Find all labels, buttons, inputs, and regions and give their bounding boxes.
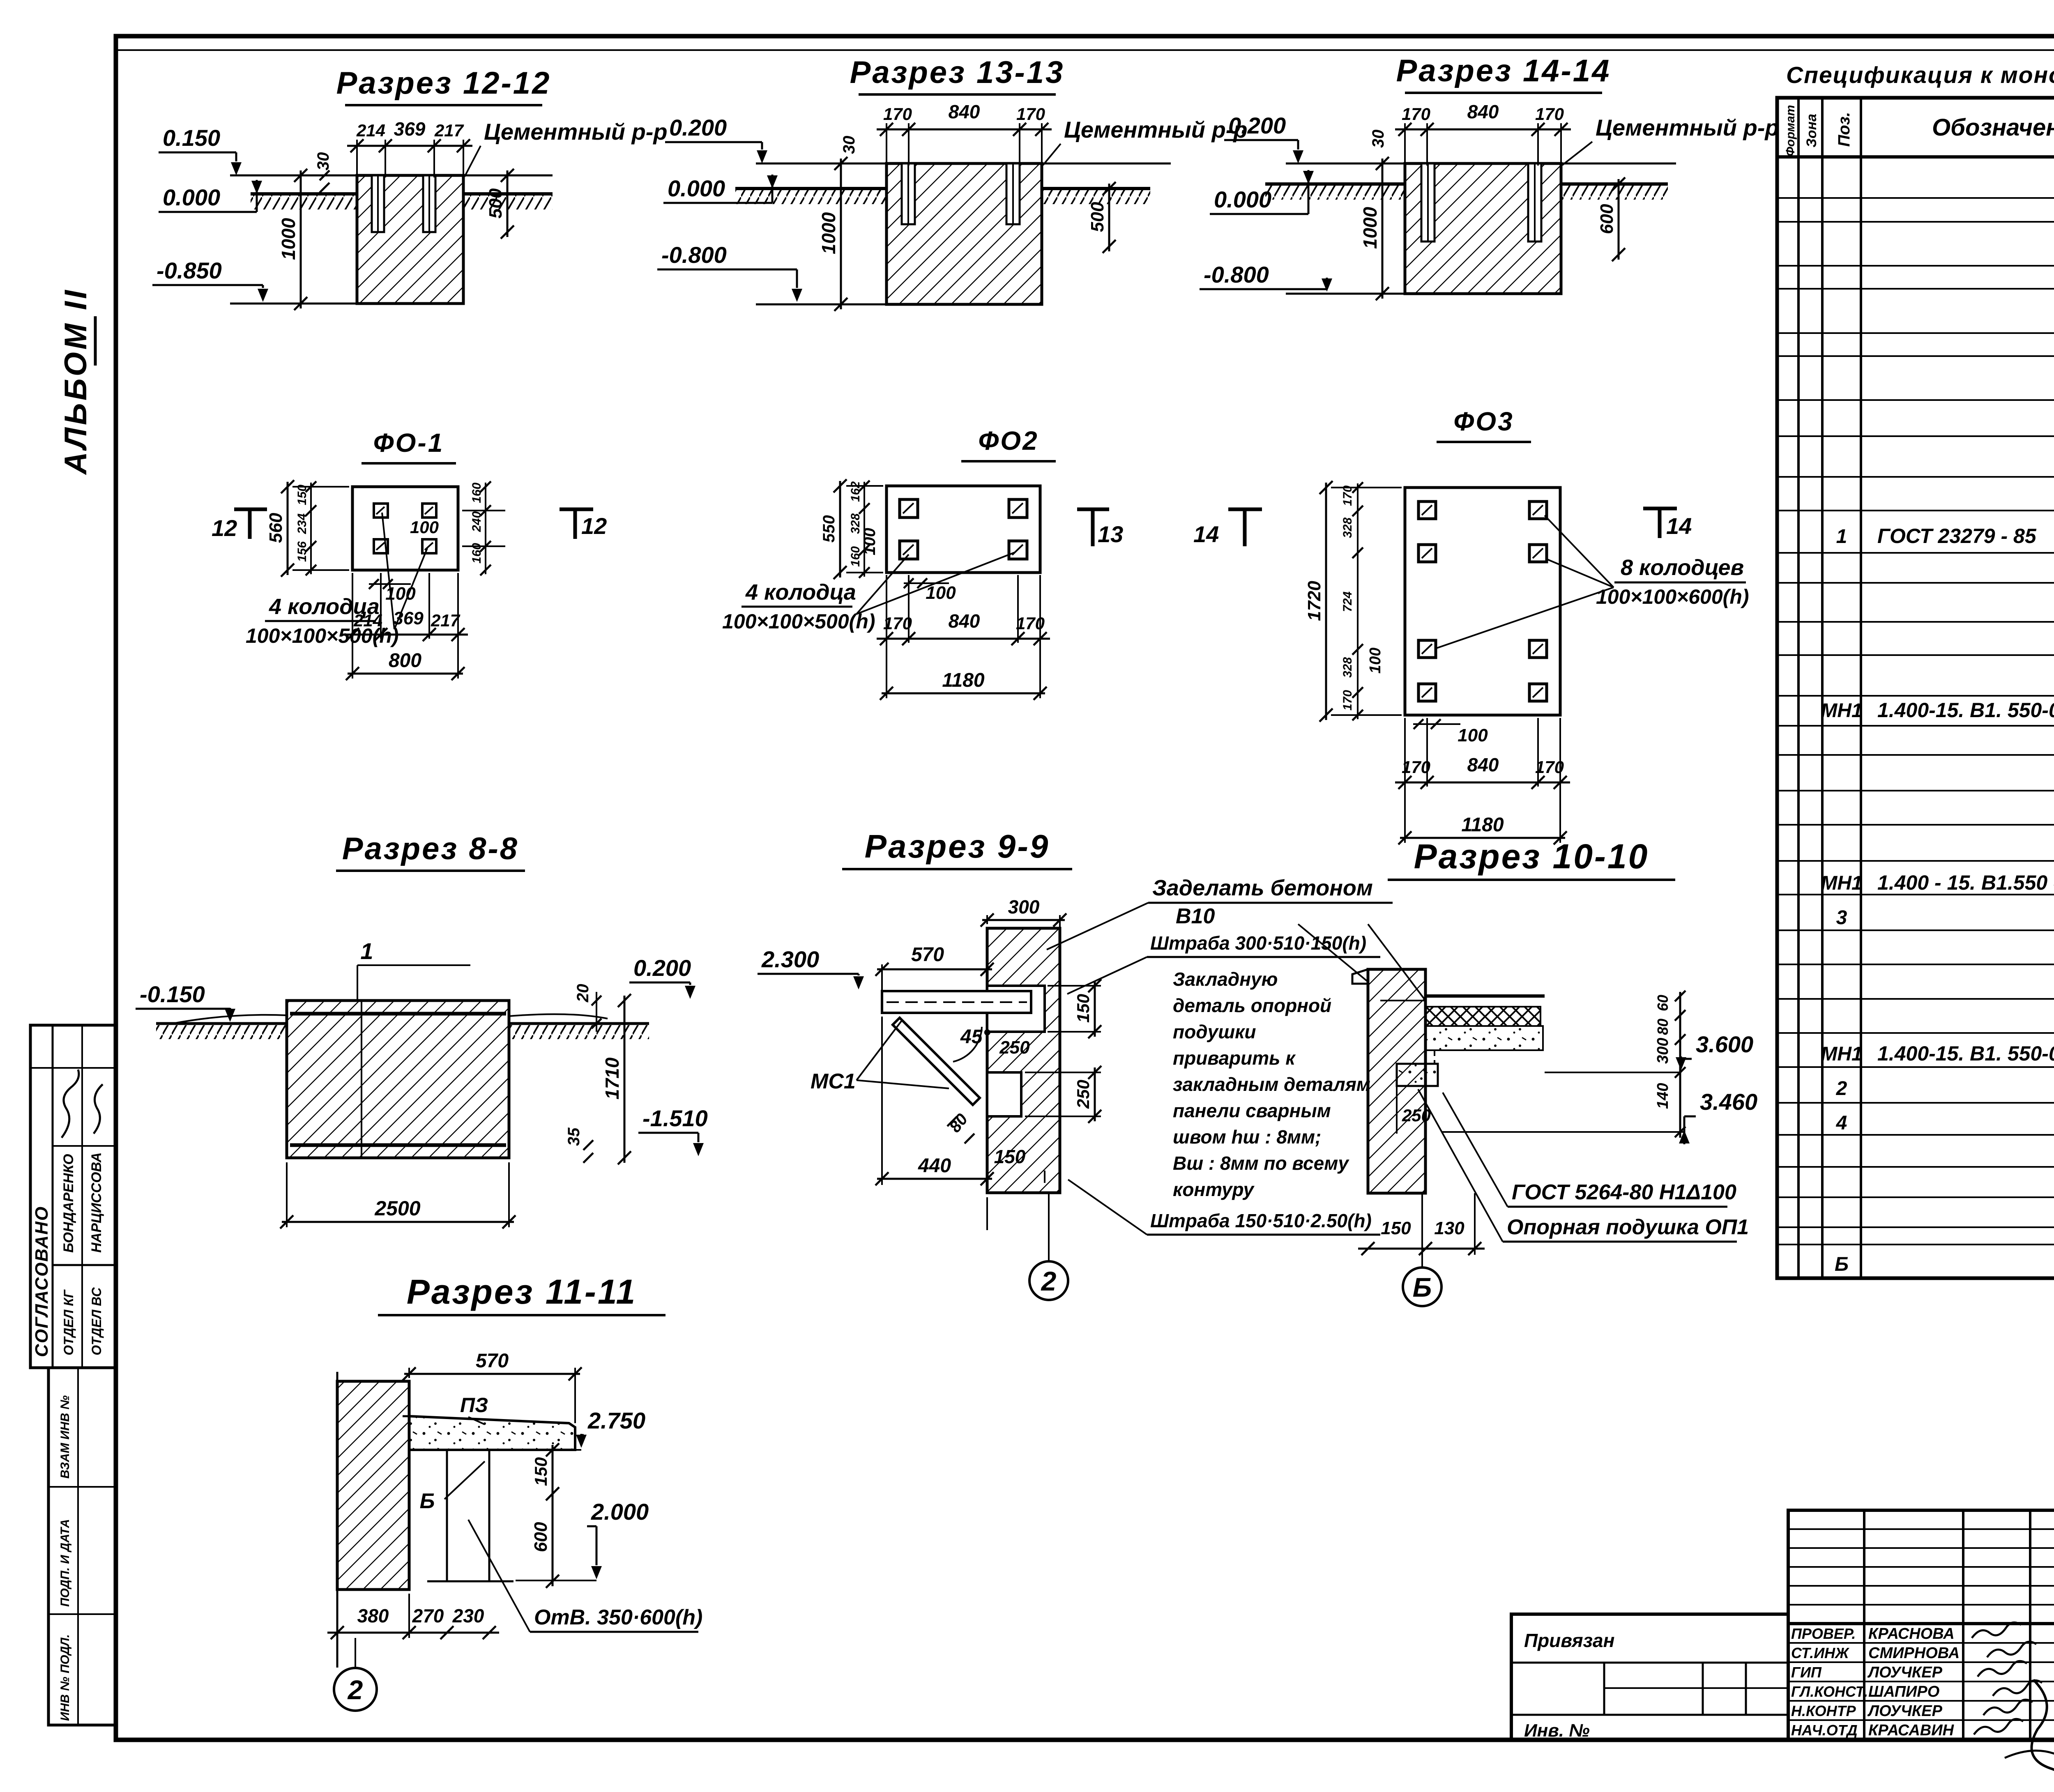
svg-text:ВЗАМ ИНВ №: ВЗАМ ИНВ №	[58, 1395, 72, 1479]
svg-text:150: 150	[994, 1146, 1026, 1167]
svg-text:Штраба 300·510·150(h): Штраба 300·510·150(h)	[1150, 932, 1366, 954]
svg-text:СОГЛАСОВАНО: СОГЛАСОВАНО	[32, 1206, 52, 1357]
svg-text:3.460: 3.460	[1700, 1089, 1757, 1115]
svg-text:1.400-15. В1. 550-04: 1.400-15. В1. 550-04	[1877, 699, 2054, 722]
svg-text:13: 13	[1098, 521, 1123, 547]
svg-text:20: 20	[574, 984, 592, 1003]
svg-text:КРАСНОВА: КРАСНОВА	[1868, 1625, 1955, 1642]
svg-text:45°: 45°	[960, 1026, 990, 1048]
svg-text:3.600: 3.600	[1696, 1031, 1753, 1057]
svg-text:570: 570	[911, 944, 944, 966]
svg-text:ШАПИРО: ШАПИРО	[1868, 1683, 1939, 1700]
svg-text:240: 240	[470, 511, 484, 532]
svg-text:156: 156	[295, 541, 309, 562]
svg-text:МН1: МН1	[1821, 1043, 1862, 1065]
svg-text:Б: Б	[420, 1489, 435, 1513]
svg-text:1.400 - 15. В1.550 - 04: 1.400 - 15. В1.550 - 04	[1877, 871, 2054, 894]
svg-text:380: 380	[357, 1605, 389, 1626]
svg-text:ОТДЕЛ ВС: ОТДЕЛ ВС	[89, 1287, 104, 1355]
svg-text:АЛЬБОМ II: АЛЬБОМ II	[58, 288, 93, 475]
svg-text:МН1: МН1	[1821, 700, 1862, 722]
svg-text:В10: В10	[1176, 904, 1215, 928]
svg-text:НАЧ.ОТД: НАЧ.ОТД	[1791, 1722, 1858, 1739]
svg-text:35: 35	[565, 1127, 583, 1146]
svg-text:0.200: 0.200	[669, 115, 727, 140]
svg-text:162: 162	[849, 481, 862, 502]
svg-text:2: 2	[347, 1675, 363, 1705]
svg-text:328: 328	[1341, 518, 1354, 538]
svg-text:Привязан: Привязан	[1524, 1630, 1614, 1651]
svg-text:приварить к: приварить к	[1173, 1047, 1296, 1069]
svg-text:4 колодца: 4 колодца	[745, 580, 856, 605]
svg-text:14: 14	[1666, 513, 1692, 539]
svg-text:Опорная подушка ОП1: Опорная подушка ОП1	[1507, 1215, 1749, 1239]
svg-text:217: 217	[431, 611, 461, 630]
svg-text:3: 3	[1836, 907, 1847, 929]
svg-text:БОНДАРЕНКО: БОНДАРЕНКО	[61, 1154, 76, 1253]
svg-text:1000: 1000	[278, 218, 299, 260]
svg-text:Цементный р-р: Цементный р-р	[1596, 115, 1779, 140]
svg-text:100: 100	[1458, 725, 1488, 745]
svg-text:328: 328	[1341, 657, 1354, 678]
svg-text:140: 140	[1654, 1083, 1672, 1109]
svg-text:ИНВ № ПОДЛ.: ИНВ № ПОДЛ.	[58, 1634, 72, 1721]
svg-text:ФО2: ФО2	[978, 426, 1039, 455]
svg-text:250: 250	[999, 1037, 1030, 1058]
svg-text:2500: 2500	[374, 1197, 420, 1220]
svg-text:150: 150	[295, 485, 309, 505]
svg-text:ГОСТ 5264-80 Н1Δ100: ГОСТ 5264-80 Н1Δ100	[1512, 1180, 1736, 1204]
svg-text:170: 170	[1016, 614, 1045, 633]
svg-text:570: 570	[476, 1350, 509, 1372]
svg-text:1000: 1000	[818, 212, 839, 254]
svg-text:369: 369	[393, 608, 424, 628]
svg-text:Штраба 150·510·2.50(h): Штраба 150·510·2.50(h)	[1150, 1210, 1372, 1231]
svg-text:440: 440	[918, 1155, 951, 1177]
svg-text:панели сварным: панели сварным	[1173, 1100, 1331, 1121]
svg-text:КРАСАВИН: КРАСАВИН	[1868, 1722, 1955, 1739]
svg-text:2.300: 2.300	[761, 946, 819, 972]
svg-text:Закладную: Закладную	[1173, 968, 1278, 990]
svg-text:130: 130	[1434, 1218, 1465, 1238]
svg-text:ПЗ: ПЗ	[460, 1394, 488, 1417]
svg-text:Б: Б	[1835, 1254, 1849, 1275]
svg-text:ОтВ. 350·600(h): ОтВ. 350·600(h)	[534, 1606, 702, 1629]
svg-text:ПРОВЕР.: ПРОВЕР.	[1791, 1625, 1856, 1642]
svg-text:100: 100	[861, 528, 879, 555]
svg-text:840: 840	[949, 610, 980, 632]
svg-text:-0.850: -0.850	[157, 258, 222, 283]
svg-text:Разрез 10-10: Разрез 10-10	[1414, 837, 1649, 876]
svg-text:30: 30	[314, 152, 332, 171]
svg-text:Н.КОНТР: Н.КОНТР	[1791, 1702, 1856, 1719]
svg-text:контуру: контуру	[1173, 1179, 1255, 1200]
svg-text:100: 100	[926, 583, 956, 603]
svg-text:2.000: 2.000	[591, 1499, 649, 1525]
svg-text:12: 12	[212, 515, 237, 541]
svg-text:150: 150	[531, 1457, 550, 1486]
svg-text:170: 170	[883, 104, 912, 124]
svg-text:1: 1	[360, 938, 373, 964]
svg-text:2.750: 2.750	[587, 1408, 645, 1433]
svg-text:100: 100	[410, 518, 439, 537]
svg-text:Разрез 14-14: Разрез 14-14	[1396, 53, 1611, 88]
svg-text:ФО3: ФО3	[1453, 407, 1514, 436]
svg-text:170: 170	[1341, 690, 1354, 711]
svg-text:-1.510: -1.510	[642, 1105, 708, 1131]
svg-text:840: 840	[949, 101, 980, 122]
svg-text:-0.150: -0.150	[140, 981, 205, 1007]
svg-text:Б: Б	[1413, 1272, 1432, 1302]
svg-text:подушки: подушки	[1173, 1021, 1256, 1042]
svg-text:160: 160	[470, 543, 484, 564]
svg-text:8 колодцев: 8 колодцев	[1621, 555, 1744, 580]
svg-text:0.000: 0.000	[1214, 186, 1271, 212]
svg-text:Формат: Формат	[1784, 105, 1797, 156]
svg-text:Инв. №: Инв. №	[1524, 1721, 1590, 1741]
svg-text:Обозначение: Обозначение	[1932, 114, 2054, 141]
svg-text:250: 250	[1402, 1106, 1431, 1125]
svg-text:Цементный р-р: Цементный р-р	[1064, 117, 1248, 143]
svg-text:0.200: 0.200	[1228, 113, 1286, 138]
svg-text:30: 30	[840, 136, 858, 154]
svg-text:234: 234	[295, 513, 309, 534]
svg-text:МН1: МН1	[1821, 872, 1862, 894]
svg-text:100×100×500(h): 100×100×500(h)	[722, 610, 875, 633]
svg-text:160: 160	[470, 483, 484, 503]
svg-text:270: 270	[412, 1605, 444, 1626]
svg-text:30: 30	[1369, 130, 1387, 148]
svg-text:214: 214	[356, 121, 385, 140]
svg-text:100×100×600(h): 100×100×600(h)	[1596, 585, 1749, 608]
svg-text:ПОДП. И ДАТА: ПОДП. И ДАТА	[58, 1519, 72, 1607]
svg-text:14: 14	[1193, 521, 1219, 547]
svg-text:170: 170	[1402, 757, 1430, 777]
svg-text:ОТДЕЛ КГ: ОТДЕЛ КГ	[61, 1289, 76, 1355]
svg-text:170: 170	[1016, 104, 1045, 124]
svg-text:Зона: Зона	[1804, 114, 1819, 147]
svg-text:ЛОУЧКЕР: ЛОУЧКЕР	[1867, 1702, 1943, 1720]
svg-text:СТ.ИНЖ: СТ.ИНЖ	[1791, 1645, 1849, 1661]
svg-text:2: 2	[1041, 1266, 1057, 1296]
svg-text:100: 100	[385, 584, 416, 604]
svg-text:ЛОУЧКЕР: ЛОУЧКЕР	[1867, 1664, 1943, 1681]
svg-text:170: 170	[1535, 104, 1564, 124]
svg-text:1180: 1180	[1461, 814, 1504, 836]
svg-text:1000: 1000	[1359, 207, 1381, 249]
svg-text:170: 170	[1535, 757, 1564, 777]
svg-text:150: 150	[1073, 994, 1093, 1023]
svg-text:деталь опорной: деталь опорной	[1173, 995, 1331, 1016]
svg-text:214: 214	[353, 611, 382, 630]
svg-text:840: 840	[1467, 101, 1499, 122]
svg-text:0.000: 0.000	[163, 184, 220, 210]
svg-text:170: 170	[883, 614, 912, 633]
svg-text:500: 500	[1087, 202, 1108, 232]
svg-text:170: 170	[1341, 485, 1354, 506]
svg-text:300: 300	[1654, 1038, 1672, 1064]
svg-text:217: 217	[434, 121, 464, 140]
svg-text:4: 4	[1836, 1112, 1847, 1134]
svg-text:800: 800	[389, 650, 421, 672]
svg-text:Разрез 12-12: Разрез 12-12	[336, 66, 551, 101]
svg-text:840: 840	[1467, 754, 1499, 775]
svg-text:600: 600	[1597, 204, 1617, 234]
svg-text:Разрез 11-11: Разрез 11-11	[407, 1272, 637, 1311]
svg-text:250: 250	[1073, 1080, 1093, 1109]
svg-text:1720: 1720	[1304, 581, 1324, 621]
svg-text:0.200: 0.200	[633, 955, 691, 981]
svg-text:швом hш : 8мм;: швом hш : 8мм;	[1173, 1126, 1321, 1148]
svg-text:230: 230	[452, 1605, 484, 1626]
svg-text:Спецификация к монолитным фунд: Спецификация к монолитным фундаментам и …	[1786, 62, 2054, 88]
svg-text:Разрез 9-9: Разрез 9-9	[865, 828, 1050, 865]
svg-text:560: 560	[266, 513, 286, 543]
svg-text:ГИП: ГИП	[1791, 1664, 1822, 1681]
svg-text:СМИРНОВА: СМИРНОВА	[1868, 1645, 1960, 1662]
svg-text:Вш : 8мм по всему: Вш : 8мм по всему	[1173, 1152, 1349, 1174]
svg-text:Разрез 8-8: Разрез 8-8	[342, 831, 519, 866]
svg-text:закладным деталям: закладным деталям	[1173, 1074, 1370, 1095]
svg-text:1180: 1180	[942, 669, 985, 691]
svg-text:12: 12	[581, 513, 607, 539]
svg-text:1: 1	[1836, 526, 1847, 547]
svg-text:ГЛ.КОНСТ.: ГЛ.КОНСТ.	[1791, 1683, 1868, 1700]
svg-text:600: 600	[531, 1522, 551, 1552]
svg-text:170: 170	[1402, 104, 1430, 124]
svg-text:550: 550	[820, 515, 838, 543]
svg-text:100: 100	[1367, 648, 1384, 674]
svg-text:1.400-15. В1. 550-04: 1.400-15. В1. 550-04	[1877, 1042, 2054, 1065]
svg-text:60: 60	[1654, 995, 1671, 1011]
svg-text:Цементный р-р: Цементный р-р	[484, 119, 668, 145]
svg-text:-0.800: -0.800	[661, 242, 727, 268]
svg-text:Разрез 13-13: Разрез 13-13	[850, 55, 1065, 90]
svg-text:500: 500	[486, 188, 506, 219]
svg-text:Поз.: Поз.	[1835, 112, 1853, 147]
svg-text:2: 2	[1836, 1078, 1847, 1100]
svg-text:-0.800: -0.800	[1204, 262, 1269, 288]
svg-text:724: 724	[1341, 591, 1354, 612]
svg-text:Заделать бетоном: Заделать бетоном	[1152, 876, 1373, 900]
svg-text:ГОСТ 23279 - 85: ГОСТ 23279 - 85	[1877, 524, 2037, 547]
svg-text:1710: 1710	[601, 1057, 623, 1100]
svg-text:МС1: МС1	[811, 1070, 856, 1093]
svg-text:80: 80	[1654, 1019, 1671, 1035]
svg-text:0.150: 0.150	[163, 125, 220, 151]
svg-text:ФО-1: ФО-1	[373, 428, 444, 458]
svg-text:369: 369	[394, 118, 426, 140]
svg-text:150: 150	[1381, 1218, 1411, 1238]
svg-text:0.000: 0.000	[668, 175, 725, 201]
svg-text:300: 300	[1008, 896, 1040, 918]
svg-text:НАРЦИССОВА: НАРЦИССОВА	[89, 1152, 104, 1253]
